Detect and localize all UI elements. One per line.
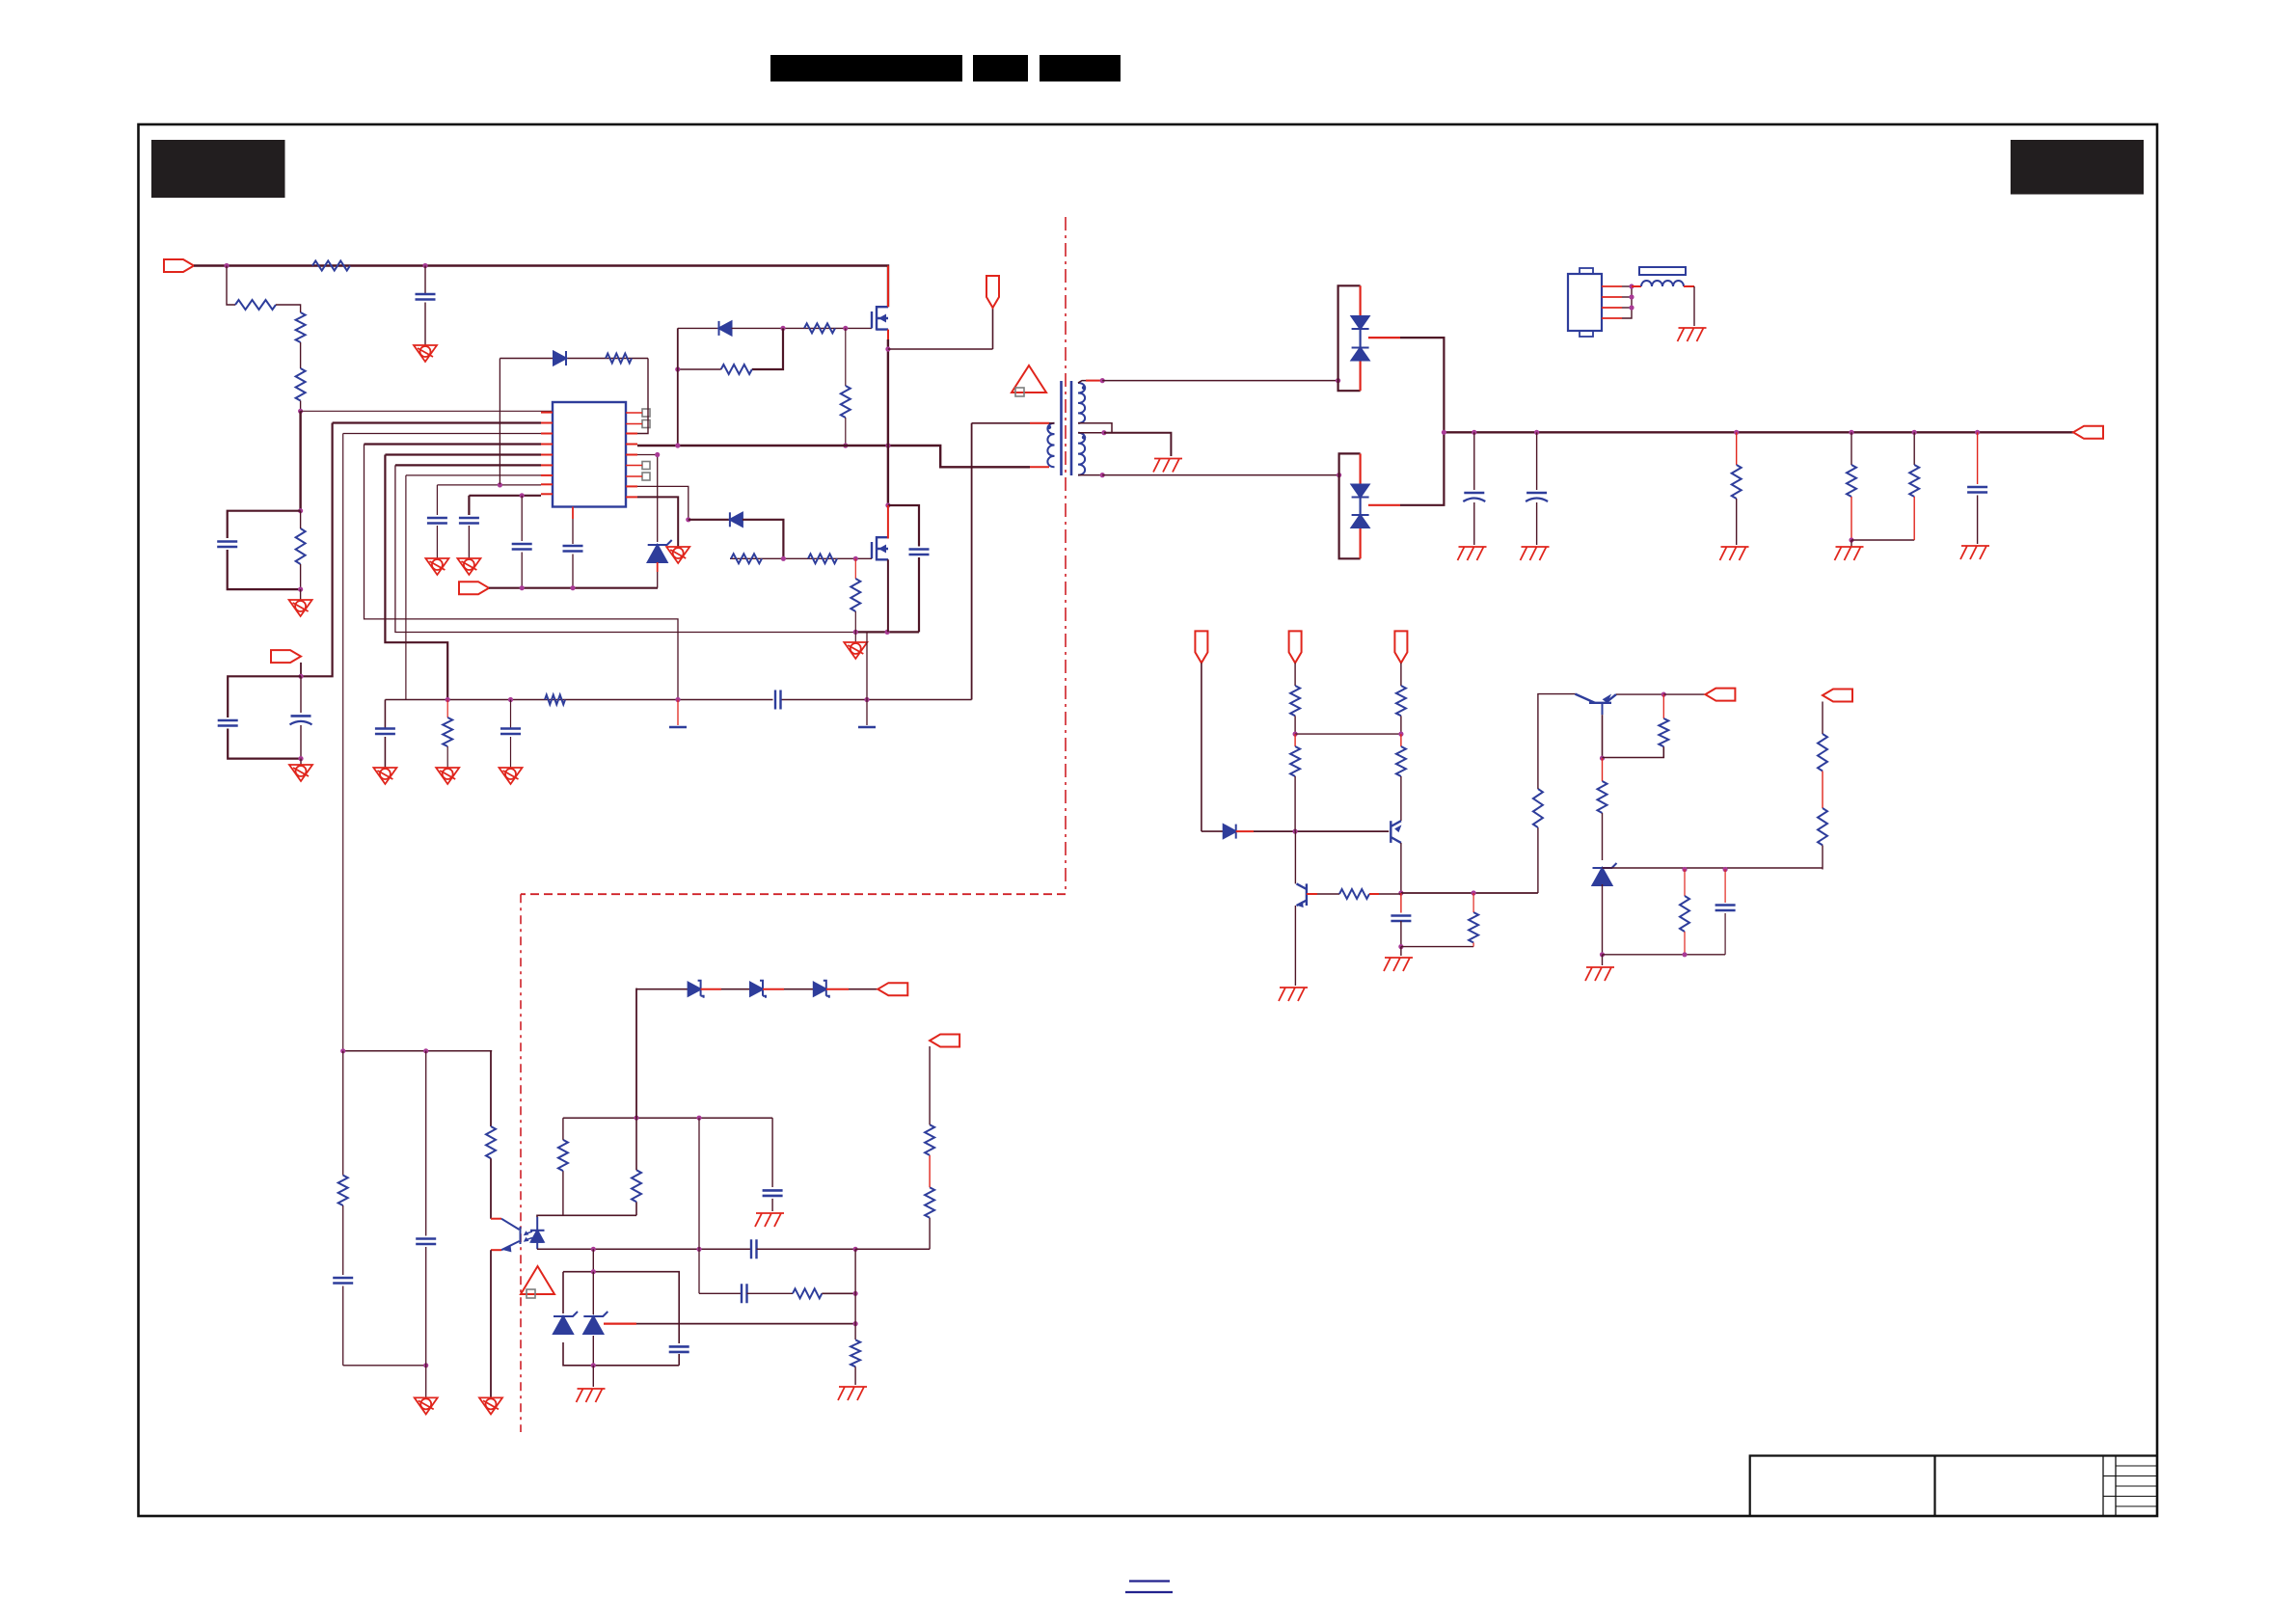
diode D-net1 — [1224, 825, 1236, 839]
junction — [1849, 537, 1853, 542]
capacitor C-ct — [563, 546, 583, 552]
junction — [655, 452, 660, 457]
wire rdiv2 top — [1913, 432, 1915, 465]
ground primary U1 — [666, 547, 689, 563]
ground primary rowg2 — [436, 768, 459, 784]
wire pin4 route b — [365, 445, 679, 700]
isolation boundary dashed line (horizontal) — [521, 893, 1066, 895]
wire rdiv join — [1851, 539, 1914, 541]
capacitor C-out1 — [1463, 493, 1485, 501]
wire tl mid col — [592, 1272, 594, 1314]
rectifier D-top frame — [1338, 285, 1361, 391]
wire box1 right low — [300, 564, 302, 589]
resistor R-gate2a — [731, 554, 762, 563]
wire zreg row — [1603, 867, 1823, 869]
wire gate row top b — [732, 327, 873, 329]
wire bottom row reg — [1603, 954, 1726, 956]
junction — [520, 585, 525, 590]
wire zener to flag row — [657, 572, 659, 588]
revision underline marks — [1125, 1582, 1173, 1593]
capacitor C-aux2 — [290, 716, 312, 724]
wire gpd2 top — [854, 558, 856, 579]
wire net1 to diode — [1202, 830, 1224, 832]
ground primary C-vcc2 — [457, 558, 480, 575]
resistor R-row — [545, 695, 565, 705]
resistor R-opto — [486, 1126, 496, 1158]
wire gnd q2 stem — [854, 632, 856, 642]
wire q6 base low2 — [1602, 813, 1604, 860]
junction — [853, 1291, 858, 1296]
wire fb up — [1537, 827, 1539, 893]
wire q1 source to flag — [888, 348, 993, 350]
wire row left col — [384, 700, 386, 729]
wire net2 mid2 — [1294, 734, 1296, 746]
junction — [843, 443, 848, 447]
wire led anode row a — [537, 1248, 751, 1250]
resistor R-div-a — [1847, 465, 1856, 497]
wire d-gate2 left — [689, 519, 730, 521]
wire tl ref stub — [604, 1322, 636, 1324]
wire aux left — [228, 676, 301, 717]
wire opto emitter col — [490, 1250, 492, 1397]
wire fb r1 col — [562, 1171, 564, 1215]
ground primary opto — [479, 1397, 502, 1414]
junction — [781, 556, 786, 561]
junction — [591, 1269, 596, 1274]
junction — [1600, 952, 1605, 957]
resistor R-n3b — [1396, 746, 1406, 776]
resistor R-div-b — [1909, 465, 1919, 497]
wire comp row — [1401, 946, 1473, 948]
junction — [1293, 829, 1298, 834]
wire q1 source — [887, 330, 889, 349]
junction — [1100, 378, 1105, 383]
wire pin9 col — [468, 496, 470, 515]
capacitor C-zrow — [1715, 906, 1736, 911]
wire q2 source rail — [855, 631, 919, 633]
wire net2 low — [1294, 776, 1296, 831]
connector flag reg-out — [1705, 689, 1735, 701]
junction — [340, 1048, 345, 1053]
wire jaux p3 — [1622, 307, 1632, 309]
wire rdiv gnd stem — [1850, 540, 1852, 547]
wire flag hv stem — [992, 308, 994, 349]
T1 phase dot primary — [1047, 425, 1051, 429]
transistor Q2 MOSFET — [872, 536, 888, 561]
junction — [1734, 430, 1739, 435]
resistor R-ll1 — [338, 1176, 348, 1205]
diode D-vcc — [554, 351, 566, 365]
junction — [853, 556, 858, 561]
junction — [570, 585, 575, 590]
wire pinR3 route — [637, 455, 658, 543]
connector flag net1 — [1195, 631, 1207, 663]
junction — [696, 1116, 701, 1121]
wire zrow r top — [1684, 870, 1686, 897]
resistor R-gpd2 — [851, 579, 860, 611]
redacted title text block B — [973, 55, 1028, 82]
junction — [885, 630, 890, 635]
ground chassis C-out3 — [1960, 546, 1989, 559]
resistor R-load1 — [1732, 465, 1742, 499]
wire gate loop — [752, 328, 783, 369]
pins U1 no-connect squares — [626, 409, 650, 480]
wire rowg2 bot — [446, 746, 448, 768]
wire zreg low — [1602, 884, 1604, 955]
junction — [298, 508, 303, 513]
wire tl ref row — [636, 1323, 855, 1325]
wire pin6 route a — [395, 464, 541, 466]
wire rect2 out — [1400, 432, 1444, 505]
resistor R-gpd1 — [841, 386, 851, 418]
inductor T1 secondary winding B — [1078, 433, 1085, 475]
capacitor C-fb — [763, 1190, 783, 1196]
wire fb node row — [1401, 892, 1538, 894]
ground chassis TL431 — [577, 1389, 606, 1402]
wire q4 gnd stem — [1400, 947, 1402, 956]
junction — [1101, 430, 1106, 435]
transistor Q4 PNP — [1391, 821, 1401, 843]
wire zrow r bot — [1684, 932, 1686, 955]
capacitor C-ll2 — [416, 1239, 436, 1245]
wire q6 base low — [1602, 758, 1604, 781]
ground chassis Q4 — [1384, 958, 1413, 971]
ground primary C-input — [414, 345, 437, 362]
zener diode Z-ll — [554, 1312, 578, 1334]
net stub tick 1 — [669, 726, 687, 729]
wire led anode row b — [757, 1248, 856, 1250]
capacitor C-ref — [512, 544, 532, 550]
junction — [780, 326, 785, 331]
wire sense col b — [1822, 771, 1823, 809]
wire q4 collector — [1400, 843, 1402, 893]
connector flag VOUT — [2073, 426, 2103, 439]
ground chassis L-filter — [1678, 328, 1707, 341]
wire d-gate2 right — [743, 520, 784, 559]
wire pin1 sense line — [301, 410, 553, 412]
connector flag Vref — [459, 582, 489, 594]
wire secA top lead — [1078, 381, 1102, 383]
wire divider mid — [300, 342, 302, 368]
wire rload1 bot — [1736, 499, 1738, 545]
wire q2 drain — [887, 505, 889, 539]
isolation boundary dashed line (transformer) — [1065, 217, 1067, 894]
ground chassis Z-reg — [1585, 967, 1614, 981]
junction — [298, 756, 303, 761]
junction — [1629, 294, 1634, 299]
wire aux right bot — [300, 725, 302, 759]
resistor R-q5b — [1339, 889, 1369, 899]
wire net1 stem — [1201, 663, 1202, 831]
wire pin5 route b — [385, 455, 447, 700]
TL431 box — [563, 1272, 679, 1366]
wire primary top col — [971, 423, 973, 700]
wire q6 base blue — [1602, 704, 1604, 715]
diode D-rect2a — [1352, 485, 1369, 498]
wire gate col — [677, 328, 679, 446]
wire col1 c — [342, 1286, 344, 1366]
wire rdiv2 bot — [1913, 497, 1915, 540]
wire C-ref col top — [521, 496, 523, 541]
wire cap vcc2 gnd — [468, 526, 470, 558]
wire mid col 725 — [698, 1118, 700, 1249]
wire rfb2 bot — [1603, 746, 1664, 757]
ground primary ll — [415, 1397, 438, 1414]
junction — [853, 1247, 858, 1252]
junction — [686, 517, 690, 522]
resistor R-n2a — [1290, 686, 1300, 716]
wire q1 drain — [887, 266, 889, 308]
wire cout1 top — [1473, 432, 1475, 490]
wire to gnd1 — [300, 589, 302, 600]
wire q5 base stub2 — [1369, 893, 1401, 895]
rect1 mid link — [1359, 329, 1361, 348]
net stub tick 2 — [858, 726, 876, 729]
ground primary box1 — [289, 600, 312, 616]
wire pin7 route a — [406, 474, 541, 476]
wire diode row c — [784, 988, 814, 990]
wire box1 right top — [300, 511, 302, 528]
wire gate row bottom — [730, 557, 872, 559]
wire center tap — [1104, 433, 1172, 456]
connector flag net3 — [1394, 631, 1407, 663]
junction — [696, 1247, 701, 1252]
rectifier D-bot frame — [1339, 453, 1361, 558]
ground chassis R-div — [1835, 547, 1864, 560]
redacted title text block A — [770, 55, 962, 82]
wire dor stub2 — [763, 988, 784, 990]
resistor R-gate1 — [804, 323, 835, 333]
safety symbol triangle A — [1012, 365, 1046, 396]
junction — [298, 674, 303, 679]
wire flag row — [489, 587, 658, 589]
capacitor C-input — [416, 294, 436, 300]
wire long feedback row a — [385, 699, 772, 701]
ground chassis R-887 — [838, 1387, 867, 1400]
inductor T1 secondary winding A — [1078, 383, 1085, 423]
resistor R-vcc — [606, 354, 632, 364]
wire q6 emitter — [1616, 693, 1663, 695]
op-amp U1 PWM controller — [553, 402, 626, 507]
junction — [1682, 867, 1687, 872]
diode D-gate1 — [719, 321, 732, 336]
transistor Q5 PNP — [1297, 883, 1307, 907]
wire col1 b — [342, 1205, 344, 1275]
connector flag HV — [986, 276, 999, 308]
wire ll top row — [343, 1050, 493, 1052]
wire q2 source — [887, 559, 889, 632]
wire dor stub1 — [701, 988, 721, 990]
junction — [1398, 944, 1403, 949]
capacitor C-tl — [669, 1346, 689, 1352]
wire pin4 route a — [365, 443, 542, 445]
wire jaux p2 — [1622, 296, 1632, 298]
zener diode Z-reg — [1593, 863, 1617, 885]
junction — [591, 1363, 596, 1367]
wire pin2 route b — [301, 423, 333, 677]
junction — [1975, 430, 1980, 435]
junction — [853, 1321, 858, 1326]
wire bus tap1 — [677, 700, 679, 726]
wire d-net1 stub — [1236, 830, 1254, 832]
wire q6 to flag — [1663, 693, 1705, 695]
wire sense col c — [1822, 845, 1823, 869]
wire row left col b — [384, 737, 386, 768]
junction — [843, 326, 848, 331]
wire secB to rectifier — [1102, 474, 1338, 476]
wire pin8 route a — [437, 484, 541, 486]
wire col2 gnd stem — [425, 1366, 427, 1398]
resistor R-sd2 — [925, 1187, 934, 1218]
wire led anode row c — [855, 1248, 930, 1250]
capacitor C-snub — [909, 550, 930, 555]
wire q5 base stub — [1307, 893, 1339, 895]
wire vcc diode right drop — [637, 359, 648, 434]
optocoupler U2 — [491, 1217, 545, 1252]
resistor R-n2b — [1290, 746, 1300, 776]
wire zrow c bot — [1724, 913, 1726, 955]
wire vcc diode drop — [499, 359, 500, 485]
wire dor stub3 — [826, 988, 849, 990]
wire gate pulldown col — [845, 328, 847, 386]
junction — [1442, 430, 1446, 435]
wire base row — [1254, 830, 1389, 832]
wire sense div col b — [929, 1155, 931, 1187]
wire q5 collector — [1294, 831, 1296, 883]
wire cout2 bot — [1536, 502, 1538, 545]
T1 phase dot secondary A — [1082, 386, 1086, 390]
junction — [1472, 430, 1476, 435]
capacitor C-ll1 — [333, 1278, 353, 1284]
connector flag sense — [1823, 690, 1852, 702]
junction — [885, 443, 890, 447]
wire gate pulldown col b — [845, 418, 847, 446]
resistor R-fb-l — [558, 1140, 568, 1171]
wire sense div col a — [929, 1046, 931, 1124]
wire led cathode rail — [537, 1215, 636, 1217]
wire cap vcc1 gnd — [436, 526, 438, 558]
wire sense div col c — [929, 1218, 931, 1250]
wire q6 base — [1602, 715, 1604, 758]
wire fb r2 top — [635, 1118, 637, 1170]
junction — [675, 697, 680, 702]
wire zrow c top — [1724, 870, 1726, 904]
junction — [885, 502, 890, 507]
junction — [498, 482, 502, 487]
wire cap input top — [424, 266, 426, 295]
capacitor C-out2 — [1526, 493, 1548, 501]
wire top rail — [194, 266, 888, 308]
ground primary rowg1 — [373, 768, 396, 784]
wire rowg3 bot — [510, 737, 512, 768]
junction — [1600, 756, 1605, 761]
wire L-filter out stub — [1684, 285, 1694, 287]
junction — [1293, 732, 1298, 737]
connector flag vsense — [930, 1035, 959, 1047]
wire gate2 drive from U1 — [637, 486, 689, 519]
border frame — [139, 124, 2158, 1516]
wire C-ref col bot — [521, 553, 523, 588]
wire vcc diode row — [500, 358, 648, 360]
wire mid row a — [699, 1292, 742, 1294]
junction — [520, 493, 525, 498]
connector flag VCC aux — [271, 650, 301, 663]
resistor R-sense2 — [1818, 808, 1827, 845]
wire comp col — [1472, 893, 1474, 912]
wire box1 left low — [228, 550, 301, 589]
capacitor C-aux1 — [218, 720, 238, 726]
wire rowg3 top — [510, 700, 512, 729]
wire output rail — [1444, 431, 2073, 433]
wire secB bottom lead — [1078, 474, 1102, 476]
T1 phase dot secondary B — [1082, 435, 1086, 439]
pins U1 right stubs — [626, 434, 637, 498]
resistor R-box1 — [296, 528, 306, 564]
inductor T1 primary winding — [1047, 423, 1054, 468]
wire diode row d — [849, 988, 878, 990]
resistor R-q6b — [1598, 781, 1607, 813]
wire rload1 top — [1736, 432, 1738, 465]
diode D-rect1a — [1352, 316, 1369, 329]
connector flag AC input — [164, 259, 194, 272]
safety symbol triangle B — [521, 1266, 554, 1298]
zener diode Z-ref — [648, 540, 672, 562]
transistor Q6 PNP — [1575, 694, 1616, 703]
wire tl top col — [592, 1249, 594, 1271]
junction — [446, 697, 450, 702]
capacitor C-row series — [775, 690, 781, 710]
wire opto col mid — [490, 1158, 492, 1219]
wire cap input bot — [424, 303, 426, 346]
ground chassis C-out2 — [1521, 547, 1550, 560]
wire ll bottom row — [343, 1365, 426, 1367]
junction — [422, 263, 427, 268]
wire net2 stem — [1294, 663, 1296, 686]
capacitor C-vcc2 — [459, 518, 479, 524]
junction — [1629, 284, 1634, 288]
wire L-filter gnd — [1693, 286, 1695, 326]
wire diode row a — [636, 988, 689, 990]
diode D-gate2 — [730, 512, 743, 527]
wire rowg2 top — [446, 700, 448, 718]
wire sense col a — [1822, 702, 1823, 735]
wire col1 a — [342, 1051, 344, 1176]
wire rect1 out stub — [1368, 337, 1400, 338]
resistor R-mid — [793, 1288, 822, 1298]
wire mid col 725b — [698, 1249, 700, 1293]
wire gate loop left — [678, 368, 721, 370]
diode D-or2 — [750, 981, 766, 998]
wire fb r2 col — [635, 1202, 637, 1215]
connector flag aux-out — [878, 983, 907, 995]
wire q4 cap col — [1400, 893, 1402, 913]
wire fb up2 — [1538, 694, 1576, 789]
wire net3 mid — [1400, 716, 1402, 734]
ground primary aux — [289, 765, 312, 781]
junction — [1849, 430, 1853, 435]
junction — [508, 697, 513, 702]
wire aux right top — [300, 676, 302, 713]
connector J-aux body — [1568, 268, 1602, 337]
wire primary bottom lead — [1030, 466, 1049, 468]
wire net3 mid2 — [1400, 734, 1402, 746]
redacted label top-right — [2011, 140, 2144, 195]
junction — [1336, 378, 1340, 383]
capacitor C-rowg3 — [500, 729, 521, 735]
zener diode U3 TL431 — [583, 1312, 608, 1334]
wire cout3 top — [1977, 432, 1979, 484]
transformer T1 core — [1062, 381, 1072, 475]
